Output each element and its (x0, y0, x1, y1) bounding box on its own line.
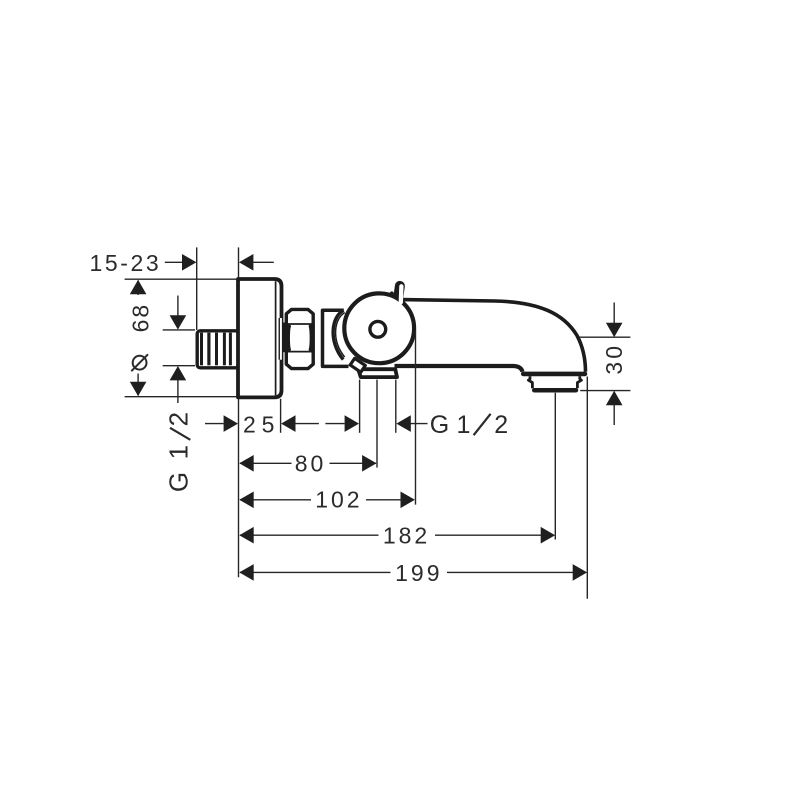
ext line aerator centre (554, 393, 556, 540)
ext line 30 bottom (580, 390, 630, 392)
arrow 102 left (239, 492, 253, 509)
arrow dia68 down (130, 382, 147, 396)
dim 15-23 leader left (165, 261, 183, 263)
dim dia68 line lower (137, 374, 139, 396)
dim 25 tail left (205, 423, 224, 425)
ext line wall vertical lower (238, 399, 240, 578)
aerator left side profile (528, 376, 532, 388)
handle circle (344, 293, 414, 363)
svg-text:1: 1 (164, 442, 194, 459)
dim 30 line lower (613, 392, 615, 425)
dim G12 right tail (411, 423, 428, 425)
svg-text:2: 2 (243, 411, 259, 437)
slip joint diagonal piece (350, 358, 365, 372)
arrow 30 down (606, 323, 623, 337)
ext line collar left (359, 380, 361, 433)
escutcheon (wall flange) (238, 279, 282, 397)
dim 15-23 leader right (253, 261, 274, 263)
ext line collar right (395, 380, 397, 433)
arrow 199 left (239, 564, 253, 581)
ext line escutcheon right (280, 399, 282, 433)
arrow 80 right (362, 455, 376, 472)
arrow 182 left (239, 527, 253, 544)
handle cone crescent (333, 310, 352, 359)
nut facet line lower (287, 351, 314, 353)
dim dia68 line upper (137, 281, 139, 296)
svg-text:68: 68 (127, 303, 153, 333)
svg-text:5: 5 (262, 411, 278, 437)
escutcheon hub slot edge (278, 318, 280, 360)
threaded inlet pipe G1/2 (197, 331, 238, 368)
escutcheon face inner line (275, 281, 277, 395)
dim 80 line right (330, 462, 377, 464)
spout top edge (401, 300, 586, 372)
knurl bars on pipe (200, 333, 232, 366)
arrow G12 right-dim right (345, 415, 359, 432)
nut to escutcheon bridge (283, 323, 288, 353)
arrow 102 right (401, 492, 415, 509)
ext line dia68 bottom (125, 396, 238, 398)
aerator right side profile (577, 376, 581, 388)
arrowheads (130, 254, 623, 581)
arrow 199 right (573, 564, 587, 581)
ext line dia68 top (125, 278, 238, 280)
dim 182 line right (435, 534, 554, 536)
dim 199 line left (240, 571, 391, 573)
spout bottom edge (395, 366, 523, 372)
dim 102 line right (366, 499, 414, 501)
ext line wall vertical upper (238, 247, 240, 278)
valve body (323, 310, 353, 366)
svg-text:1: 1 (457, 411, 474, 439)
fraction slash of right G 1/2 (474, 414, 491, 435)
svg-text:199: 199 (395, 560, 442, 586)
svg-text:102: 102 (315, 487, 362, 513)
ext line pipe bottom (163, 365, 195, 367)
fraction slash of left G 1/2 (rotated along vertical text) (170, 428, 190, 440)
ext line handle right (415, 331, 417, 505)
dim G12 right tail left (325, 423, 344, 425)
svg-text:15-23: 15-23 (90, 250, 162, 276)
svg-text:G: G (430, 411, 452, 439)
dim G12 left line upper (177, 296, 179, 329)
handle lever stub white channel (399, 286, 404, 302)
lever left fillet bump (390, 291, 394, 295)
label dia symbol (drawn) (131, 354, 148, 371)
spout outlet lip (523, 372, 585, 377)
svg-text:80: 80 (295, 451, 327, 477)
arrow 30 up (606, 391, 623, 405)
arrow 182 right (541, 527, 555, 544)
ext line pipe start vertical (196, 247, 198, 330)
dim 182 line left (240, 534, 379, 536)
arrow 80 left (239, 455, 253, 472)
arrow 25 right (224, 415, 238, 432)
svg-text:2: 2 (494, 411, 511, 439)
dim 102 line left (240, 499, 311, 501)
handle lever stub black body (398, 286, 400, 298)
svg-text:2: 2 (164, 409, 194, 426)
dim 25 tail right (296, 423, 319, 425)
arrow dia68 up (130, 280, 147, 294)
ext line spout tip (586, 377, 588, 599)
ext line pipe top (163, 329, 195, 331)
connection nut (286, 309, 313, 368)
ext line 30 top (579, 336, 631, 338)
nut facet side curves (286, 324, 290, 353)
dim 80 line left (240, 462, 292, 464)
svg-text:G: G (164, 469, 194, 492)
arrow 15-23 left (239, 254, 253, 271)
nut facet line upper (287, 323, 314, 325)
ext line valve axis (376, 380, 378, 468)
handle center hub (370, 321, 386, 337)
arrow G12 pipe up (170, 366, 187, 380)
arrow G12 pipe down (170, 315, 187, 329)
spout collar G1/2 (358, 369, 397, 377)
svg-text:30: 30 (601, 343, 627, 375)
dim G12 left line lower (177, 367, 179, 403)
dim 30 line upper (613, 303, 615, 337)
svg-text:182: 182 (383, 523, 430, 549)
dim 199 line right (447, 571, 586, 573)
arrow 15-23 right (182, 254, 196, 271)
escutcheon hub slot (280, 318, 282, 360)
aerator bottom bar (534, 388, 576, 393)
crescent inner thin arc (336, 313, 345, 357)
arrow G12 right-dim left (396, 415, 410, 432)
arrow 25 left (281, 415, 295, 432)
